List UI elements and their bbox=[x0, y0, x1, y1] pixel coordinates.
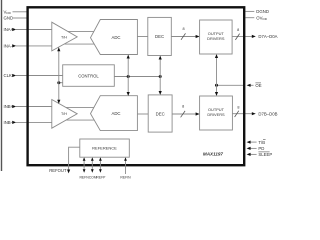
svg-text:8: 8 bbox=[183, 27, 185, 31]
REFERENCE block bbox=[80, 139, 130, 157]
wire DEC B to OUTPUT DRIVERS B bbox=[172, 113, 196, 115]
junction dot clock stub bbox=[57, 81, 60, 84]
svg-text:8: 8 bbox=[237, 106, 239, 110]
arrowhead into ADC A bottom bbox=[127, 55, 130, 59]
svg-text:INB+: INB+ bbox=[4, 104, 14, 109]
arrowhead COM up into REFERENCE bbox=[91, 157, 94, 160]
arrowhead SLEEP into box bbox=[247, 153, 251, 156]
svg-text:OE: OE bbox=[255, 83, 261, 88]
arrowhead REFP up into REFERENCE bbox=[99, 157, 102, 160]
arrowhead D7A-D0A bbox=[252, 35, 256, 38]
svg-text:REFERENCE: REFERENCE bbox=[92, 146, 117, 151]
wire OE vertical between output drivers bbox=[216, 57, 218, 93]
ADC A block bbox=[91, 20, 138, 55]
wire OUTPUT DRIVERS A to D7A-D0A pin bbox=[232, 35, 252, 37]
arrowhead into OUTPUT DRIVERS B bbox=[196, 112, 200, 115]
svg-text:ADC: ADC bbox=[111, 111, 120, 116]
svg-text:PD: PD bbox=[258, 146, 264, 151]
svg-text:DRIVERS: DRIVERS bbox=[207, 112, 225, 117]
arrowhead REFIN up into REFERENCE bbox=[124, 157, 127, 160]
svg-text:REFIN: REFIN bbox=[120, 176, 131, 180]
arrowhead REFN up into REFERENCE bbox=[83, 157, 86, 160]
arrowhead REFOUT down bbox=[67, 170, 70, 174]
svg-text:CONTROL: CONTROL bbox=[78, 73, 99, 78]
arrowhead PD into box bbox=[247, 147, 251, 150]
OUTPUT DRIVERS B block bbox=[200, 96, 233, 130]
wire GND bbox=[13, 17, 28, 19]
pin T/B bbox=[250, 141, 257, 143]
pin SLEEP bbox=[250, 153, 257, 155]
wire INB- bbox=[16, 121, 53, 123]
DEC B block bbox=[148, 95, 172, 132]
wire T/H B to ADC B upper bbox=[64, 106, 95, 108]
arrowhead T/B into box bbox=[247, 141, 251, 144]
arrowhead INA+ bbox=[12, 28, 16, 31]
wire REFP pin bbox=[99, 158, 101, 170]
svg-text:CLK: CLK bbox=[4, 73, 12, 78]
svg-text:D7A–D0A: D7A–D0A bbox=[258, 34, 277, 39]
CONTROL block bbox=[63, 65, 115, 87]
wire OE inside to output drivers bbox=[217, 84, 244, 86]
wire T/H A to ADC A lower bbox=[60, 43, 96, 45]
amplifier T/H B bbox=[52, 100, 77, 129]
svg-text:REFP: REFP bbox=[96, 176, 106, 180]
wire ADC A to DEC A bbox=[137, 36, 147, 38]
OUTPUT DRIVERS A block bbox=[200, 20, 233, 54]
svg-text:DGND: DGND bbox=[256, 9, 269, 14]
svg-text:INB-: INB- bbox=[4, 120, 13, 125]
arrowhead D7B-D0B bbox=[252, 112, 256, 115]
svg-text:GND: GND bbox=[4, 16, 14, 21]
wire ADC B to DEC B bbox=[137, 113, 148, 115]
svg-text:D7B–D0B: D7B–D0B bbox=[258, 111, 277, 116]
svg-text:T/H: T/H bbox=[61, 112, 67, 116]
arrowhead into OUTPUT DRIVERS A bbox=[196, 35, 200, 38]
arrowhead into OUTPUT DRIVERS B top bbox=[215, 92, 218, 96]
DEC A block bbox=[148, 17, 172, 55]
arrowhead REFP down out bbox=[99, 169, 102, 172]
arrowhead INB- bbox=[12, 121, 16, 124]
svg-text:T/H: T/H bbox=[61, 35, 67, 39]
wire ADC clock vertical bbox=[127, 58, 129, 94]
arrowhead into DEC A bottom bbox=[159, 56, 162, 60]
svg-text:8: 8 bbox=[237, 28, 239, 32]
arrowhead clock into T/H B bbox=[57, 100, 60, 104]
svg-text:T/B: T/B bbox=[258, 140, 265, 145]
wire COM pin bbox=[91, 158, 93, 170]
chip outline box bbox=[28, 7, 245, 165]
svg-text:DEC: DEC bbox=[156, 112, 165, 117]
junction dot node DEC clock bbox=[159, 75, 162, 78]
arrowhead into DEC B top bbox=[159, 91, 162, 95]
pin OVDD bbox=[246, 17, 255, 19]
svg-text:VDD: VDD bbox=[4, 9, 12, 15]
svg-text:INA-: INA- bbox=[4, 44, 13, 49]
arrowhead into OUTPUT DRIVERS A bottom bbox=[215, 54, 218, 58]
arrowhead REFN down out bbox=[83, 169, 86, 172]
bus slash B1 bbox=[181, 111, 186, 117]
wire clock vertical to T/H A and T/H B bbox=[58, 50, 60, 102]
ADC B block bbox=[91, 96, 138, 131]
wire REFIN pin bbox=[125, 158, 127, 174]
arrowhead OE into box bbox=[247, 84, 251, 87]
pin PD bbox=[250, 147, 257, 149]
bus slash B2 bbox=[235, 111, 239, 117]
arrowhead INB+ bbox=[12, 105, 16, 108]
svg-text:OVDD: OVDD bbox=[256, 15, 267, 21]
wire REFOUT bbox=[69, 147, 80, 170]
wire DEC clock vertical bbox=[159, 59, 161, 93]
wire INB+ bbox=[16, 106, 53, 108]
wire VDD bbox=[13, 11, 28, 13]
svg-text:ADC: ADC bbox=[111, 35, 120, 40]
junction dot node ADC clock bbox=[127, 75, 130, 78]
wire CONTROL output right bbox=[114, 76, 160, 78]
svg-text:INA+: INA+ bbox=[4, 27, 14, 32]
pin DGND bbox=[246, 10, 255, 12]
svg-text:SLEEP: SLEEP bbox=[258, 152, 272, 157]
junction dot OE node bbox=[215, 84, 218, 87]
bus slash A1 bbox=[181, 33, 186, 39]
arrowhead CLK bbox=[12, 74, 16, 77]
svg-text:DRIVERS: DRIVERS bbox=[207, 36, 225, 41]
wire INA- bbox=[16, 45, 53, 47]
bus slash A2 bbox=[235, 34, 239, 40]
page column rule bbox=[1, 0, 3, 171]
arrowhead clock into T/H A bbox=[57, 47, 60, 51]
wire REFN pin bbox=[83, 158, 85, 170]
amplifier T/H A bbox=[52, 22, 77, 51]
svg-text:MAX1197: MAX1197 bbox=[203, 152, 224, 157]
pin OE stub outside bbox=[250, 84, 254, 86]
wire T/H B to ADC B lower bbox=[60, 119, 96, 121]
wire INA+ bbox=[16, 29, 53, 31]
wire OUTPUT DRIVERS B to D7B-D0B pin bbox=[232, 113, 252, 115]
wire T/H A to ADC A upper bbox=[64, 30, 95, 32]
wire CONTROL clock stub left bbox=[59, 82, 63, 84]
wire CLK bbox=[16, 75, 63, 77]
svg-text:REFOUT: REFOUT bbox=[49, 168, 67, 173]
arrowhead COM down out bbox=[91, 169, 94, 172]
arrowhead into ADC B top bbox=[127, 92, 130, 96]
wire DEC A to OUTPUT DRIVERS A bbox=[171, 36, 196, 38]
svg-text:8: 8 bbox=[182, 104, 184, 108]
svg-text:DEC: DEC bbox=[155, 34, 164, 39]
arrowhead INA- bbox=[12, 44, 16, 47]
